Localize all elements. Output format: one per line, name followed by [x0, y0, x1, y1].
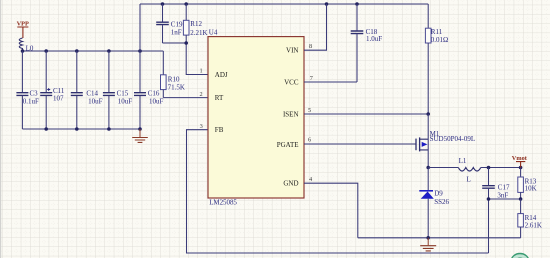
junction C16 top (VPP link)	[138, 49, 142, 53]
junction R12 top	[184, 2, 188, 6]
capacitor C16	[134, 51, 164, 129]
svg-text:3nF: 3nF	[497, 191, 508, 199]
junction C14 bottom	[75, 127, 79, 131]
svg-text:2.21K: 2.21K	[190, 29, 207, 37]
svg-text:8: 8	[309, 43, 312, 50]
resistor R10	[161, 51, 185, 98]
wire GND rail bottom-left	[22, 128, 140, 130]
svg-text:C17: C17	[498, 183, 510, 191]
inductor L1	[458, 157, 481, 184]
wire ADJ (C19/R12 to pin 1)	[163, 43, 209, 75]
wire divider link	[489, 198, 521, 200]
wire VPP rail (caps top)	[23, 50, 164, 52]
wire pin 7 (VCC)	[304, 81, 357, 83]
junction R12/C19	[184, 41, 188, 45]
svg-text:D9: D9	[434, 190, 443, 198]
logo	[511, 254, 529, 258]
junction C18 top	[355, 2, 359, 6]
power port Vmot	[512, 155, 528, 168]
junction at L0 / C3	[21, 49, 25, 53]
svg-text:RT: RT	[215, 94, 224, 102]
svg-text:L: L	[467, 176, 471, 184]
resistor R12	[183, 4, 207, 43]
capacitor C3	[16, 51, 39, 129]
svg-text:R12: R12	[190, 20, 202, 28]
wire FB riser (C17 / divider tap)	[488, 199, 490, 253]
svg-text:ADJ: ADJ	[215, 71, 228, 79]
svg-text:LM25085: LM25085	[209, 199, 237, 207]
junction C15 top	[107, 49, 111, 53]
svg-text:U4: U4	[209, 28, 218, 36]
wire pin 4 (GND)	[304, 183, 358, 238]
junction D9 / ground	[426, 236, 430, 240]
junction pin8 riser	[325, 2, 329, 6]
capacitor C14	[71, 51, 103, 129]
svg-text:ISEN: ISEN	[283, 111, 299, 119]
capacitor C19	[156, 4, 183, 43]
junction C11 top	[44, 49, 48, 53]
junction C16 bottom / ground	[138, 127, 142, 131]
svg-text:1.0uF: 1.0uF	[366, 35, 382, 43]
svg-text:C19: C19	[171, 20, 183, 28]
wire top VPP rail	[140, 3, 428, 5]
svg-text:107: 107	[53, 95, 64, 103]
IC U4 body	[208, 37, 304, 198]
resistor R11	[425, 4, 448, 114]
inductor L0	[19, 38, 34, 53]
capacitor C18	[351, 4, 383, 82]
resistor R14	[518, 199, 542, 238]
ground (left)	[132, 129, 148, 142]
junction R13/R14	[519, 197, 523, 201]
junction C19 top	[161, 2, 165, 6]
svg-text:GND: GND	[283, 180, 298, 188]
junction C11 bottom	[44, 127, 48, 131]
junction Vmot / R13	[519, 166, 523, 170]
capacitor C11 (polarized)	[40, 51, 65, 129]
svg-text:SUD50P04-09L: SUD50P04-09L	[430, 135, 476, 143]
svg-text:5: 5	[308, 107, 311, 114]
junction ISEN / R11 / M1 source	[426, 112, 430, 116]
svg-text:7: 7	[310, 75, 313, 82]
svg-text:Vmot: Vmot	[512, 155, 528, 162]
svg-text:R10: R10	[168, 75, 180, 83]
junction C15 bottom	[107, 127, 111, 131]
wire RT (R10 to pin 2)	[163, 97, 208, 99]
wire VPP link vertical x=140	[139, 4, 141, 51]
svg-text:10uF: 10uF	[149, 97, 164, 105]
svg-text:PGATE: PGATE	[277, 141, 299, 149]
wire GND rail bottom	[358, 237, 521, 239]
junction C17 bottom / FB	[487, 197, 491, 201]
power port VPP	[17, 21, 29, 38]
svg-text:6: 6	[308, 136, 311, 143]
transistor M1 (P-MOSFET)	[416, 114, 475, 168]
svg-text:SS26: SS26	[434, 198, 449, 206]
wire pin 8 riser	[304, 4, 327, 50]
wire pin 5 (ISEN)	[304, 113, 428, 115]
svg-text:71.5K: 71.5K	[168, 83, 185, 91]
svg-text:R11: R11	[431, 28, 443, 36]
svg-text:2: 2	[200, 91, 203, 98]
junction C14 top	[75, 49, 79, 53]
wire switch node to L1	[428, 167, 458, 169]
svg-text:VIN: VIN	[286, 47, 298, 55]
svg-text:L1: L1	[459, 157, 467, 165]
junction C17 top	[487, 166, 491, 170]
IC U4 LM25085	[200, 37, 313, 198]
svg-text:3: 3	[200, 123, 203, 130]
svg-text:1: 1	[200, 68, 203, 75]
wire FB (pin 3 loop to divider)	[187, 130, 489, 253]
svg-text:10uF: 10uF	[118, 97, 133, 105]
svg-text:FB: FB	[215, 126, 224, 134]
junction switch node	[426, 166, 430, 170]
svg-text:VCC: VCC	[284, 79, 299, 87]
diode D9 (SS26)	[419, 168, 449, 238]
capacitor C17	[482, 168, 510, 200]
resistor R13	[518, 168, 537, 200]
ground (bottom)	[420, 238, 436, 251]
capacitor C15	[103, 51, 132, 129]
wire L1 to output	[481, 167, 521, 169]
svg-text:0.1uF: 0.1uF	[23, 97, 39, 105]
svg-text:0.01Ω: 0.01Ω	[431, 36, 448, 44]
svg-text:10K: 10K	[525, 185, 537, 193]
wire pin 6 (PGATE) to gate	[304, 143, 416, 145]
svg-text:1nF: 1nF	[171, 28, 182, 36]
svg-text:2.61K: 2.61K	[525, 221, 542, 229]
svg-text:10uF: 10uF	[88, 97, 103, 105]
